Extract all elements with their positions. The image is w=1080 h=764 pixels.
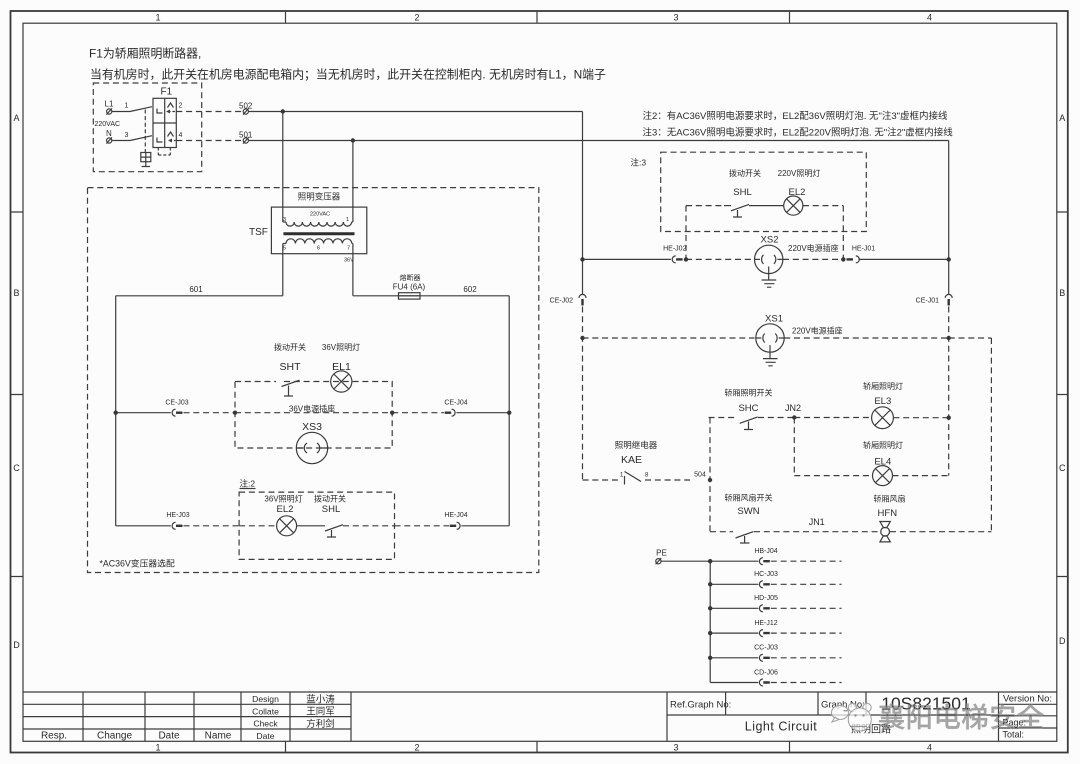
svg-text:轿厢照明灯: 轿厢照明灯: [863, 440, 903, 450]
svg-text:CE-J01: CE-J01: [916, 298, 939, 305]
svg-text:当有机房时，此开关在机房电源配电箱内；当无机房时，此开关在控: 当有机房时，此开关在机房电源配电箱内；当无机房时，此开关在控制柜内. 无机房时有…: [90, 68, 606, 82]
svg-text:Ref.Graph No:: Ref.Graph No:: [670, 700, 731, 711]
svg-text:220V照明灯: 220V照明灯: [778, 168, 821, 178]
svg-text:拨动开关: 拨动开关: [274, 342, 306, 352]
svg-text:L1: L1: [105, 100, 114, 109]
svg-text:EL2: EL2: [789, 187, 806, 198]
svg-text:襄阳电梯安全: 襄阳电梯安全: [878, 703, 1044, 733]
svg-text:SHC: SHC: [738, 403, 758, 414]
svg-text:拨动开关: 拨动开关: [314, 494, 346, 504]
svg-text:SWN: SWN: [737, 506, 759, 517]
svg-text:王同军: 王同军: [306, 707, 335, 718]
svg-text:JN1: JN1: [809, 517, 825, 527]
svg-text:XS3: XS3: [302, 421, 322, 433]
svg-text:601: 601: [189, 285, 203, 294]
svg-text:3: 3: [673, 13, 678, 23]
svg-text:SHT: SHT: [280, 361, 302, 373]
svg-text:Date: Date: [256, 731, 274, 741]
svg-text:轿厢照明灯: 轿厢照明灯: [863, 381, 903, 391]
svg-text:EL1: EL1: [332, 361, 351, 373]
svg-text:注:3: 注:3: [631, 158, 647, 168]
svg-text:C: C: [1059, 463, 1066, 473]
svg-text:3: 3: [673, 743, 678, 753]
svg-text:602: 602: [463, 285, 477, 294]
svg-text:注:2: 注:2: [240, 479, 256, 489]
svg-text:2: 2: [179, 103, 183, 110]
svg-text:220VAC: 220VAC: [95, 121, 121, 128]
svg-text:36V: 36V: [344, 258, 354, 264]
svg-text:JN2: JN2: [785, 403, 801, 413]
svg-text:HB-J04: HB-J04: [754, 548, 777, 555]
svg-text:CE-J03: CE-J03: [165, 400, 188, 407]
svg-text:D: D: [13, 640, 20, 650]
svg-text:7: 7: [347, 246, 350, 252]
svg-text:拨动开关: 拨动开关: [729, 168, 761, 178]
svg-text:1: 1: [620, 473, 624, 479]
svg-text:PE: PE: [656, 549, 667, 558]
svg-text:D: D: [1059, 636, 1066, 646]
svg-text:Name: Name: [205, 731, 232, 742]
svg-text:36V照明灯: 36V照明灯: [322, 342, 360, 352]
svg-text:SHL: SHL: [733, 187, 751, 198]
svg-text:HE-J12: HE-J12: [754, 620, 777, 627]
svg-text:504: 504: [694, 472, 706, 479]
svg-text:轿厢风扇开关: 轿厢风扇开关: [725, 493, 773, 503]
svg-text:1: 1: [346, 217, 349, 223]
svg-text:Light Circuit: Light Circuit: [745, 720, 818, 734]
svg-text:36V电源插座: 36V电源插座: [289, 404, 335, 414]
svg-text:EL3: EL3: [874, 396, 891, 407]
svg-text:4: 4: [927, 743, 932, 753]
svg-text:HE-J01: HE-J01: [852, 246, 875, 253]
svg-text:220VAC: 220VAC: [310, 212, 330, 218]
svg-text:1: 1: [155, 743, 160, 753]
svg-text:HFN: HFN: [878, 508, 898, 519]
svg-text:Design: Design: [252, 694, 279, 704]
svg-text:4: 4: [927, 13, 932, 23]
svg-text:F1为轿厢照明断路器,: F1为轿厢照明断路器,: [89, 47, 201, 61]
svg-text:蓝小涛: 蓝小涛: [306, 693, 335, 705]
svg-text:4: 4: [179, 132, 183, 139]
svg-text:N: N: [106, 129, 112, 138]
svg-text:6: 6: [317, 246, 320, 252]
svg-text:*AC36V变压器选配: *AC36V变压器选配: [100, 557, 175, 568]
svg-text:Collate: Collate: [252, 706, 279, 716]
svg-text:Resp.: Resp.: [41, 731, 67, 742]
svg-text:220V电源插座: 220V电源插座: [788, 243, 839, 253]
svg-text:EL2: EL2: [277, 504, 294, 515]
svg-text:Change: Change: [97, 731, 132, 742]
svg-text:HE-J02: HE-J02: [663, 246, 686, 253]
svg-text:2: 2: [414, 13, 419, 23]
svg-text:XS2: XS2: [761, 235, 779, 246]
svg-text:CE-J02: CE-J02: [550, 298, 573, 305]
svg-text:FU4 (6A): FU4 (6A): [393, 283, 426, 292]
svg-text:Date: Date: [158, 731, 180, 742]
svg-text:2: 2: [414, 743, 419, 753]
svg-text:照明继电器: 照明继电器: [615, 440, 658, 450]
svg-text:B: B: [1059, 288, 1065, 298]
svg-text:HE-J04: HE-J04: [444, 512, 467, 519]
svg-text:XS1: XS1: [765, 314, 783, 325]
svg-text:1: 1: [125, 103, 129, 110]
svg-text:注2：有AC36V照明电源要求时，EL2配36V照明灯泡.: 注2：有AC36V照明电源要求时，EL2配36V照明灯泡. 无"注3"虚框内接线: [643, 110, 948, 122]
svg-text:注3：无AC36V照明电源要求时，EL2配220V照明灯泡.: 注3：无AC36V照明电源要求时，EL2配220V照明灯泡. 无"注2"虚框内接…: [643, 126, 954, 138]
svg-text:CD-J06: CD-J06: [754, 669, 778, 676]
svg-text:TSF: TSF: [249, 227, 268, 238]
svg-text:F1: F1: [161, 87, 173, 98]
svg-text:A: A: [13, 113, 19, 123]
svg-text:HC-J03: HC-J03: [754, 571, 778, 578]
svg-text:C: C: [13, 463, 20, 473]
svg-text:A: A: [1059, 113, 1065, 123]
svg-text:220V电源插座: 220V电源插座: [792, 326, 843, 336]
svg-text:轿厢风扇: 轿厢风扇: [874, 494, 906, 504]
svg-text:EL4: EL4: [874, 457, 891, 468]
svg-text:熔断器: 熔断器: [400, 273, 421, 282]
svg-text:轿厢照明开关: 轿厢照明开关: [725, 388, 773, 398]
svg-text:方利剑: 方利剑: [306, 718, 335, 730]
svg-text:HE-J03: HE-J03: [166, 512, 189, 519]
svg-text:3: 3: [125, 132, 129, 139]
svg-text:KAE: KAE: [621, 454, 642, 466]
svg-text:CC-J03: CC-J03: [754, 645, 778, 652]
svg-text:Check: Check: [253, 719, 278, 729]
svg-text:HD-J05: HD-J05: [754, 595, 778, 602]
svg-text:8: 8: [645, 473, 649, 479]
svg-text:5: 5: [283, 246, 286, 252]
svg-text:36V照明灯: 36V照明灯: [264, 494, 302, 504]
svg-text:B: B: [13, 288, 19, 298]
svg-text:照明变压器: 照明变压器: [298, 192, 341, 202]
svg-text:SHL: SHL: [322, 504, 340, 515]
svg-text:1: 1: [155, 13, 160, 23]
svg-text:CE-J04: CE-J04: [444, 400, 467, 407]
